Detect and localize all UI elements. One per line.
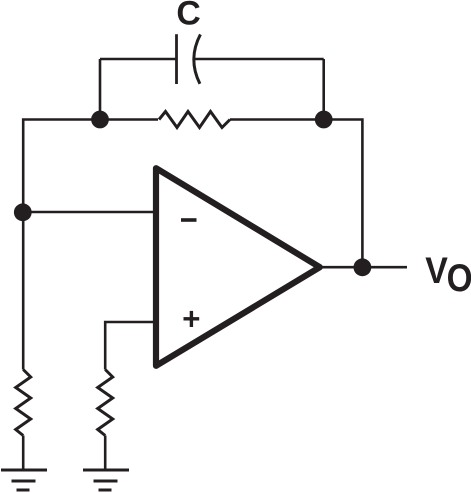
ground (right) xyxy=(83,470,129,490)
svg-text:V: V xyxy=(425,251,448,291)
wire: op-amp output xyxy=(320,266,407,269)
wire: feedback line left segment (corner to resistor) xyxy=(23,120,158,213)
wire: left resistor to ground xyxy=(22,436,25,471)
wire: inverting input xyxy=(23,211,155,214)
resistor (right, non-inverting input to ground) xyxy=(98,370,113,436)
wire: capacitor branch left riser (node A up) xyxy=(99,59,102,120)
wire: feedback line right segment to output riser xyxy=(230,120,362,268)
wire: non-inverting input xyxy=(105,322,155,370)
wire: capacitor branch top left horizontal xyxy=(100,58,177,61)
ground (left) xyxy=(1,470,47,490)
wire: capacitor branch right riser down to node B xyxy=(322,59,325,120)
wire: left branch vertical down to resistor xyxy=(22,212,25,370)
op-amp U1 triangle xyxy=(156,168,320,366)
op-amp minus sign xyxy=(181,218,197,222)
svg-text:O: O xyxy=(447,256,471,300)
wire: right resistor to ground xyxy=(104,436,107,471)
svg-text:C: C xyxy=(176,0,200,33)
node B junction dot xyxy=(315,111,333,129)
label VO xyxy=(425,251,448,291)
node A junction dot xyxy=(91,111,109,129)
resistor (feedback) xyxy=(159,112,230,128)
capacitor C right curved plate xyxy=(194,34,201,83)
op-amp plus sign xyxy=(184,311,200,327)
capacitor C left plate xyxy=(175,34,178,84)
wire: capacitor branch top right horizontal xyxy=(194,58,324,61)
inverting input junction dot xyxy=(14,203,32,221)
resistor (left, inverting input to ground) xyxy=(16,370,31,436)
output node junction dot xyxy=(354,258,372,276)
